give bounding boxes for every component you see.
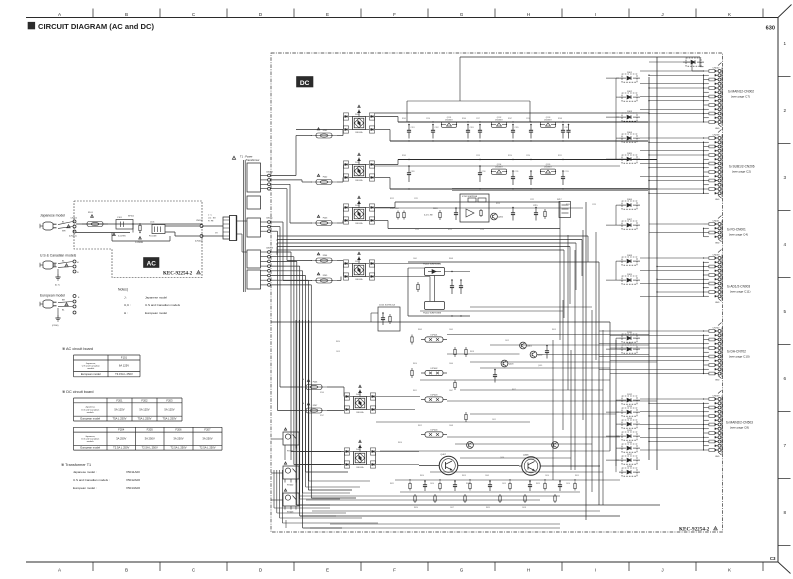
- svg-text:R421: R421: [390, 483, 394, 485]
- svg-text:F207: F207: [313, 405, 318, 407]
- ground symbol European model: [57, 308, 59, 315]
- zener board block ZD401: [378, 307, 400, 331]
- svg-text:U.S & Canadian models: U.S & Canadian models: [40, 254, 76, 258]
- svg-text:R208: R208: [558, 118, 562, 120]
- capacitor C401: [451, 280, 453, 286]
- svg-text:BL: BL: [62, 261, 65, 263]
- wire rail y322: [271, 321, 610, 323]
- svg-text:D313: D313: [627, 406, 633, 408]
- svg-text:C408: C408: [449, 425, 453, 427]
- transistor Q409: [467, 442, 474, 449]
- svg-text:R415: R415: [575, 475, 579, 477]
- svg-text:C410: C410: [545, 475, 549, 477]
- svg-text:R409: R409: [418, 329, 422, 331]
- svg-text:H :: H :: [124, 311, 128, 315]
- wire row2 bottom rail: [375, 177, 390, 179]
- svg-text:C3: C3: [770, 556, 776, 561]
- svg-text:2SD880Y: 2SD880Y: [544, 166, 552, 168]
- wire AC mains lower: [76, 232, 130, 234]
- wire row1 upper loop: [407, 100, 530, 102]
- svg-text:to MAIN2/2-CN503: to MAIN2/2-CN503: [726, 421, 753, 425]
- svg-text:ICP402: ICP402: [431, 368, 439, 370]
- wire feeders CN702: [599, 330, 704, 332]
- svg-text:R414: R414: [420, 475, 424, 477]
- svg-text:(see page C4): (see page C4): [729, 232, 748, 236]
- capacitor C204: [479, 125, 481, 131]
- svg-text:R425: R425: [486, 507, 490, 509]
- varistor NR101: [139, 224, 141, 226]
- svg-text:Q408: Q408: [523, 455, 529, 457]
- svg-text:D309: D309: [627, 274, 633, 276]
- svg-text:European model: European model: [40, 294, 65, 298]
- svg-text:1N4003A: 1N4003A: [356, 466, 364, 469]
- svg-text:J :: J :: [124, 295, 127, 299]
- diode D306: [622, 201, 637, 209]
- wire PQ401 rails: [408, 267, 425, 269]
- wire lower-left bundle bends: [273, 470, 275, 508]
- svg-text:KEC-92254-2: KEC-92254-2: [163, 272, 193, 277]
- svg-text:GY: GY: [215, 233, 218, 235]
- bottom network rails: [395, 479, 620, 481]
- wire plug UC to pins: [58, 262, 73, 264]
- svg-text:D314: D314: [627, 418, 633, 420]
- resistor R403: [411, 368, 413, 370]
- svg-text:F203: F203: [166, 398, 173, 402]
- table DC circuit board fuses F204-F207: [74, 426, 223, 428]
- power transistor Q407 (TO-3): [439, 456, 458, 475]
- svg-text:C222: C222: [530, 199, 534, 201]
- table DC circuit board fuses F201-F203: [74, 397, 183, 399]
- svg-text:T2.5A L 250V: T2.5A L 250V: [113, 446, 129, 450]
- table AC circuit board fuse F101: [74, 354, 141, 356]
- svg-text:to SUB1/2-CN206: to SUB1/2-CN206: [729, 165, 755, 169]
- svg-text:(see page C7): (see page C7): [731, 94, 750, 98]
- svg-text:I: I: [595, 12, 596, 17]
- svg-text:6: 6: [784, 376, 787, 381]
- svg-text:D: D: [259, 12, 263, 17]
- svg-text:C224: C224: [480, 229, 484, 231]
- svg-text:630: 630: [766, 26, 775, 32]
- ribbon connector to transformer: [223, 217, 230, 239]
- svg-text:D307: D307: [627, 219, 633, 221]
- capacitor C101 across line: [116, 220, 133, 230]
- svg-text:1-520SB: 1-520SB: [135, 242, 143, 244]
- svg-text:R422: R422: [466, 483, 470, 485]
- svg-text:5A 125V: 5A 125V: [164, 407, 174, 411]
- svg-text:F201: F201: [116, 398, 123, 402]
- svg-text:C217: C217: [476, 118, 480, 120]
- svg-text:F206: F206: [320, 392, 324, 394]
- resistor R402: [411, 335, 413, 337]
- svg-text:R417: R417: [512, 389, 516, 391]
- transformer core lines: [243, 160, 245, 292]
- svg-text:H : FE: H : FE: [208, 221, 214, 223]
- resistor R405: [465, 347, 467, 349]
- svg-text:BL: BL: [62, 309, 65, 311]
- svg-text:R209: R209: [402, 155, 406, 157]
- svg-text:D306: D306: [627, 199, 633, 201]
- svg-text:D205: D205: [355, 162, 360, 164]
- svg-text:2: 2: [784, 108, 787, 113]
- svg-text:X5013A00: X5013A00: [126, 486, 140, 490]
- svg-text:D316: D316: [627, 442, 633, 444]
- wire row3 upper double line: [452, 188, 648, 190]
- svg-text:R412: R412: [418, 425, 422, 427]
- svg-text:ZD401 NJM78L05A: ZD401 NJM78L05A: [379, 304, 396, 307]
- bridge rectifier D205-D208: [353, 165, 366, 178]
- svg-text:R424: R424: [414, 507, 418, 509]
- svg-text:T2.5A L 250V: T2.5A L 250V: [199, 446, 215, 450]
- diode D302: [622, 93, 637, 101]
- svg-text:5: 5: [784, 309, 787, 314]
- svg-text:D317: D317: [627, 454, 633, 456]
- svg-text:Q405: Q405: [538, 365, 542, 367]
- wire bridge5 out: [376, 396, 420, 398]
- capacitor C214: [512, 208, 514, 213]
- diode D307: [622, 221, 637, 229]
- node dots bottom: [409, 479, 410, 480]
- svg-text:D401: D401: [356, 394, 361, 396]
- svg-text:F204: F204: [118, 428, 125, 432]
- wire bottom long rails: [310, 527, 560, 529]
- svg-text:F201: F201: [323, 130, 328, 132]
- svg-text:D304: D304: [627, 132, 633, 134]
- svg-text:Notes): Notes): [118, 288, 128, 292]
- svg-text:G: G: [460, 12, 464, 17]
- corner diagonal top-right: [778, 5, 792, 18]
- wire fuse to bridge row2: [337, 181, 343, 183]
- svg-text:※ AC circuit board: ※ AC circuit board: [62, 347, 93, 351]
- resistor R407: [465, 412, 467, 414]
- svg-text:GND: GND: [715, 379, 720, 381]
- svg-text:D305: D305: [627, 153, 633, 155]
- svg-text:PQ401 NJM7805FA: PQ401 NJM7805FA: [423, 263, 441, 266]
- capacitor C211: [512, 171, 514, 177]
- svg-text:to FD-CN001: to FD-CN001: [727, 228, 746, 232]
- svg-text:Q404: Q404: [500, 457, 504, 459]
- voltage regulator PQ402: [425, 302, 445, 310]
- svg-text:RY402: RY402: [287, 485, 294, 487]
- svg-text:C: C: [192, 568, 196, 573]
- svg-text:R212: R212: [390, 198, 394, 200]
- svg-text:C219: C219: [476, 155, 480, 157]
- wire bridge4 out: [375, 263, 440, 265]
- svg-text:(CN101): (CN101): [69, 236, 77, 238]
- bridge rectifier D213-D216: [353, 264, 366, 277]
- wire TO3 rail: [419, 465, 437, 467]
- svg-text:T5A L 250V: T5A L 250V: [113, 417, 127, 421]
- wire bus left risers: [276, 235, 278, 237]
- svg-text:European model: European model: [81, 372, 101, 376]
- svg-text:IC201 NJM7812A: IC201 NJM7812A: [462, 195, 478, 198]
- diode D309: [622, 276, 637, 284]
- svg-text:GND: GND: [715, 302, 720, 304]
- wire top feeder y62: [649, 61, 692, 63]
- corner diagonal bottom-right: [778, 562, 791, 574]
- fuse F101: [82, 223, 108, 225]
- svg-text:A: A: [58, 568, 62, 573]
- wire fuse to bridge row1: [337, 135, 343, 137]
- vertical bus x657: [656, 57, 658, 470]
- svg-text:C409: C409: [485, 475, 489, 477]
- bus band five wires: [277, 235, 588, 237]
- svg-text:models: models: [87, 412, 95, 414]
- line filter L101: [152, 225, 165, 234]
- svg-text:F205: F205: [323, 275, 328, 277]
- connector pins U.S model: [73, 260, 76, 263]
- page border bottom ruler: [26, 561, 778, 563]
- svg-text:F: F: [393, 568, 396, 573]
- capacitor C202: [432, 125, 434, 131]
- wire rail y422: [376, 421, 530, 423]
- svg-text:to MAIN12-CN002: to MAIN12-CN002: [728, 90, 754, 94]
- wire long bus band right of band5: [559, 202, 561, 340]
- wire row3 rails: [375, 207, 395, 209]
- svg-text:D318: D318: [627, 466, 633, 468]
- diode D315: [622, 432, 637, 440]
- svg-text:5A 125V: 5A 125V: [139, 407, 149, 411]
- wire rail y334.5: [447, 334, 649, 336]
- svg-text:3: 3: [784, 175, 787, 180]
- fuse F206: [301, 386, 327, 388]
- svg-text:C209: C209: [411, 171, 415, 173]
- diode D312: [622, 396, 637, 404]
- svg-text:R214: R214: [566, 204, 570, 206]
- svg-text:R410: R410: [413, 363, 417, 365]
- vertical bus x649: [648, 77, 650, 460]
- transformer T1 winding w3: [247, 218, 261, 237]
- node dots row1: [408, 121, 409, 122]
- AC plug P1 Japanese: [43, 222, 53, 230]
- wire feeders CN003: [640, 257, 704, 259]
- wire row1 bottom rail: [375, 129, 390, 131]
- svg-text:7: 7: [784, 443, 787, 448]
- wire left bundle verticals: [295, 320, 297, 505]
- svg-text:to DA-CN702: to DA-CN702: [727, 350, 746, 354]
- diode D318: [622, 468, 637, 476]
- wire row1 top rail: [375, 116, 398, 118]
- svg-text:models: models: [87, 368, 95, 370]
- wire rail y451: [380, 450, 610, 452]
- wire bridge6 feed: [300, 451, 344, 453]
- resistor pair row3 left: [397, 211, 399, 213]
- warning mark plug EU: [65, 303, 68, 306]
- svg-text:3A 250V: 3A 250V: [145, 437, 155, 441]
- svg-text:A: A: [58, 12, 62, 17]
- svg-text:J : C: J : C: [208, 215, 213, 217]
- wire T1 CN013 bundle: [271, 251, 292, 253]
- transformer T1 heading: [232, 156, 235, 159]
- svg-text:(see page C2): (see page C2): [732, 169, 751, 173]
- svg-text:FL101M: FL101M: [149, 236, 157, 238]
- capacitor C203: [467, 125, 469, 131]
- wire feeders CN001: [649, 223, 704, 225]
- svg-text:0.22 L 3W: 0.22 L 3W: [424, 215, 433, 217]
- wire relay feeds: [284, 449, 286, 461]
- warning mark plug J: [67, 225, 70, 228]
- svg-text:※ DC circuit board: ※ DC circuit board: [62, 390, 93, 394]
- resistor R201: [439, 210, 441, 212]
- svg-text:G: G: [460, 568, 464, 573]
- svg-text:E: E: [78, 297, 80, 299]
- node junction: [132, 223, 133, 224]
- capacitor C207: [562, 125, 564, 131]
- wire plug J to CN101: [58, 222, 73, 225]
- capacitor C201: [408, 125, 410, 131]
- svg-text:ICP403: ICP403: [431, 395, 439, 397]
- svg-text:Japanese model: Japanese model: [145, 295, 167, 299]
- mid-right vertical bus x610: [609, 322, 611, 451]
- capacitor C209: [408, 166, 410, 173]
- capacitor C213: [562, 171, 564, 177]
- svg-text:C414: C414: [430, 483, 434, 485]
- svg-text:F101: F101: [88, 212, 94, 214]
- diode D317: [622, 456, 637, 464]
- svg-text:DC: DC: [300, 80, 310, 87]
- svg-text:D217: D217: [557, 199, 562, 201]
- svg-text:3A 250V: 3A 250V: [202, 437, 212, 441]
- svg-text:C101: C101: [117, 217, 123, 219]
- svg-text:D213: D213: [355, 261, 360, 263]
- svg-text:U.S and Canadian models: U.S and Canadian models: [145, 303, 181, 307]
- svg-text:European model: European model: [80, 417, 100, 421]
- svg-text:3-5178S: 3-5178S: [118, 236, 126, 238]
- transformer T1 winding w4: [247, 250, 261, 268]
- svg-text:E: E: [326, 568, 329, 573]
- node dots row2: [408, 159, 409, 160]
- svg-text:(see page C11): (see page C11): [730, 289, 750, 293]
- svg-text:2SD880Y: 2SD880Y: [544, 119, 552, 121]
- svg-text:R215: R215: [448, 229, 452, 231]
- svg-text:C218: C218: [526, 118, 530, 120]
- svg-text:C415: C415: [502, 483, 506, 485]
- diode left stubs: [606, 77, 619, 79]
- mid-right vertical bus x586: [585, 202, 587, 520]
- svg-text:5A 125V: 5A 125V: [114, 407, 124, 411]
- svg-text:C205: C205: [515, 127, 519, 129]
- transformer T1 winding w1: [247, 163, 261, 192]
- svg-text:F207: F207: [204, 428, 211, 432]
- relay RY403: [283, 493, 299, 506]
- svg-text:R211: R211: [558, 155, 562, 157]
- wire CN102 to T1 ribbon: [203, 225, 223, 227]
- svg-text:1N4003A: 1N4003A: [355, 222, 363, 225]
- circuit protector ICP404: [425, 432, 443, 437]
- power transistor Q408 (TO-3): [522, 457, 541, 476]
- diode D316: [622, 444, 637, 452]
- diode D319 top right: [686, 58, 701, 66]
- diode D311: [622, 345, 637, 353]
- circuit protector ICP403: [425, 397, 443, 402]
- svg-text:H: H: [77, 262, 79, 264]
- svg-text:C220: C220: [526, 155, 530, 157]
- svg-text:T3.15A L 250V: T3.15A L 250V: [115, 372, 133, 376]
- wire feeders CN206: [640, 137, 704, 139]
- svg-text:Q403: Q403: [509, 364, 515, 366]
- capacitor C404: [494, 370, 496, 375]
- fuse F201: [311, 135, 337, 137]
- svg-text:R210: R210: [508, 155, 512, 157]
- bridge rectifier D405-D408: [354, 452, 367, 465]
- svg-text:R416: R416: [398, 442, 402, 444]
- svg-text:I: I: [595, 568, 596, 573]
- AC plug P3 European: [43, 300, 53, 308]
- fuse F205: [311, 280, 337, 282]
- transistor Q402: [530, 351, 537, 358]
- wire ribbon to T1 primary: [237, 220, 248, 222]
- svg-text:GND: GND: [715, 199, 720, 201]
- svg-text:CN011: CN011: [266, 217, 273, 219]
- svg-text:F203: F203: [323, 217, 328, 219]
- svg-text:GND: GND: [715, 128, 720, 130]
- svg-text:CN012: CN012: [266, 171, 274, 173]
- wire T1 CN011 outputs: [271, 221, 284, 223]
- fuse F204: [311, 260, 337, 262]
- svg-text:D201: D201: [355, 114, 360, 116]
- svg-text:F205: F205: [147, 428, 154, 432]
- svg-text:D209: D209: [355, 205, 360, 207]
- bridge rectifier D209-D212: [353, 208, 366, 221]
- svg-text:D302: D302: [627, 91, 633, 93]
- svg-text:C412: C412: [505, 340, 509, 342]
- svg-text:5A: 5A: [302, 378, 305, 381]
- wire grid central verticals: [552, 340, 554, 480]
- ground symbol U.S model: [57, 269, 59, 274]
- relay RY401: [283, 432, 299, 445]
- svg-text:C201: C201: [411, 127, 415, 129]
- diode D314: [622, 420, 637, 428]
- svg-text:CN013: CN013: [266, 247, 274, 249]
- capacitor C210: [479, 166, 481, 173]
- circuit protector ICP401: [425, 337, 443, 342]
- svg-text:1N4003A: 1N4003A: [355, 278, 363, 281]
- svg-text:C406: C406: [449, 363, 453, 365]
- svg-text:H: H: [527, 12, 530, 17]
- svg-text:C418: C418: [522, 507, 526, 509]
- fuse F207: [301, 410, 327, 412]
- cluster C215/R202: [535, 208, 537, 213]
- wire fuse to bridge row5: [327, 386, 344, 388]
- AC circuit board dashed outline: [74, 201, 202, 278]
- wire T1 CN012 outputs: [271, 175, 297, 177]
- svg-text:3A 250V: 3A 250V: [173, 437, 183, 441]
- svg-text:K: K: [728, 568, 732, 573]
- svg-text:C203: C203: [470, 127, 474, 129]
- svg-text:T2.5A L 250V: T2.5A L 250V: [142, 446, 158, 450]
- svg-text:(see page C10): (see page C10): [729, 354, 750, 358]
- resistor R404: [454, 347, 456, 349]
- wire bridge6 out: [376, 451, 419, 453]
- svg-text:T1 : Power: T1 : Power: [240, 155, 253, 159]
- svg-text:F206: F206: [175, 428, 182, 432]
- wire row2 top rail: [375, 164, 398, 166]
- svg-text:C223: C223: [592, 204, 596, 206]
- svg-text:GND: GND: [715, 456, 720, 458]
- svg-text:R408: R408: [449, 258, 453, 260]
- svg-text:Transformer: Transformer: [246, 158, 260, 162]
- bottom network components: [409, 482, 411, 484]
- svg-text:2SD880Y: 2SD880Y: [495, 119, 503, 121]
- page border top ruler: [26, 17, 778, 19]
- svg-text:(CN102): (CN102): [195, 241, 203, 243]
- svg-text:1N4003A: 1N4003A: [355, 131, 363, 134]
- svg-text:C417: C417: [450, 507, 454, 509]
- relay RY402: [283, 466, 299, 479]
- AC plug P2 US/Canadian: [43, 261, 53, 269]
- capacitor C205: [512, 125, 514, 131]
- svg-text:R206: R206: [462, 118, 466, 120]
- svg-text:C: C: [192, 12, 196, 17]
